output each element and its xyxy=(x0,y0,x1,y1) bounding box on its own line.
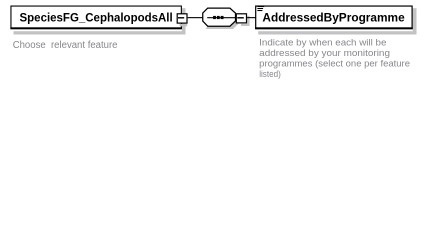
element box SpeciesFG_CephalopodsAll xyxy=(11,6,181,29)
annotation icon line 1 xyxy=(257,6,264,7)
svg-text:listed): listed) xyxy=(259,68,281,79)
shadow of sequence compositor xyxy=(206,16,239,29)
minus sign of compositor expand button xyxy=(237,17,244,18)
shadow right band of element box SpeciesFG_CephalopodsAll xyxy=(182,8,186,34)
shadow bottom band of element box SpeciesFG_CephalopodsAll xyxy=(14,31,186,34)
minus sign of left expand button xyxy=(178,17,184,18)
svg-text:SpeciesFG_CephalopodsAll: SpeciesFG_CephalopodsAll xyxy=(20,13,173,25)
svg-text:Choose relevant feature: Choose relevant feature xyxy=(13,40,118,51)
shadow of expand button on left box xyxy=(180,24,188,26)
wire from compositor expand button to AddressedByProgramme box xyxy=(247,17,256,18)
svg-text:addressed by your monitoring: addressed by your monitoring xyxy=(259,47,390,58)
sequence compositor octagon xyxy=(203,8,236,26)
annotation icon line 3 xyxy=(257,10,262,11)
sequence dot 2 xyxy=(217,16,220,19)
shadow right band of element box AddressedByProgramme xyxy=(413,8,417,34)
svg-text:programmes (select one per fea: programmes (select one per feature xyxy=(259,57,410,68)
shadow of compositor expand button xyxy=(241,16,250,26)
annotation icon line 2 xyxy=(257,8,263,9)
element box AddressedByProgramme xyxy=(256,6,412,29)
svg-text:Indicate by when each will be: Indicate by when each will be xyxy=(259,36,386,47)
sequence inner line xyxy=(207,17,235,18)
svg-text:AddressedByProgramme: AddressedByProgramme xyxy=(262,13,404,25)
expand button (minus) on left box xyxy=(177,14,187,23)
expand button (minus) after compositor xyxy=(236,14,246,23)
sequence dot 3 xyxy=(221,16,224,19)
sequence dot 1 xyxy=(213,16,216,19)
wire from left box to sequence compositor xyxy=(188,17,203,18)
element box bottom thick border xyxy=(10,27,182,29)
shadow bottom band of element box AddressedByProgramme xyxy=(258,31,416,34)
AddressedByProgramme box bottom thick border xyxy=(255,27,413,29)
